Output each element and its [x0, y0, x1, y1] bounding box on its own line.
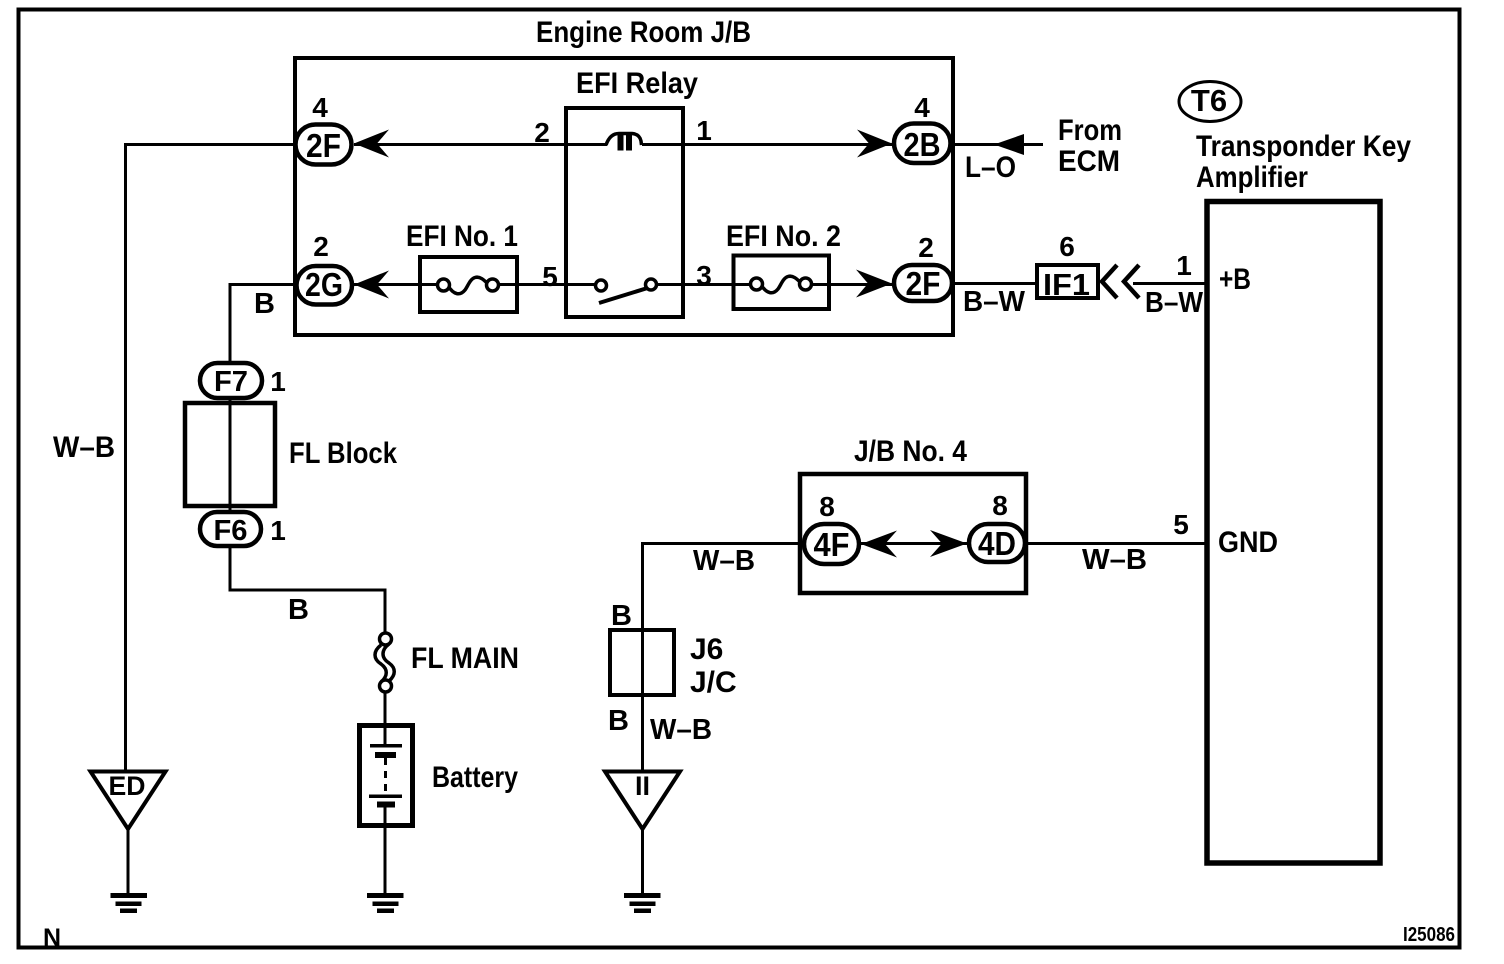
svg-text:B: B — [608, 705, 629, 737]
wire B elbow from F6 to FL MAIN — [229, 589, 387, 592]
wire 2B to From ECM stub L-O — [953, 143, 1043, 146]
wire between 4F and 4D arrows — [861, 542, 967, 545]
ground symbol battery bar 1 — [367, 893, 404, 898]
battery plate positive long top — [370, 744, 402, 748]
svg-text:1: 1 — [1176, 250, 1192, 281]
svg-text:From: From — [1058, 114, 1122, 147]
connector F7 stadium — [200, 363, 262, 398]
relay coil hump — [606, 134, 642, 146]
connector 4F stadium — [804, 524, 859, 564]
svg-text:5: 5 — [542, 261, 558, 292]
svg-text:J6: J6 — [690, 633, 723, 666]
wire W-B vertical down to ground ED — [124, 143, 127, 772]
svg-text:J/B No. 4: J/B No. 4 — [854, 435, 967, 468]
svg-text:4: 4 — [312, 92, 328, 123]
svg-text:F7: F7 — [214, 366, 248, 398]
battery plate negative short bottom — [377, 802, 395, 808]
fuse EFI No. 2 element squiggle — [761, 276, 801, 293]
battery dashed center line — [384, 758, 387, 795]
FL Block box — [185, 403, 275, 506]
relay switch contact pin 5 — [596, 280, 607, 291]
svg-text:6: 6 — [1059, 231, 1075, 262]
svg-text:1: 1 — [270, 366, 286, 397]
svg-text:W–B: W–B — [1082, 544, 1147, 576]
arrow From ECM (points left) — [994, 134, 1024, 155]
svg-text:W–B: W–B — [53, 431, 115, 464]
wire ED triangle to ground — [127, 828, 130, 894]
svg-text:FL MAIN: FL MAIN — [411, 642, 519, 675]
svg-text:T6: T6 — [1191, 83, 1227, 118]
svg-text:GND: GND — [1218, 526, 1278, 559]
ground symbol battery bar 3 — [377, 909, 394, 914]
svg-text:B–W: B–W — [1145, 287, 1204, 319]
ground symbol left bar 3 — [120, 909, 137, 914]
Transponder Key Amplifier box T6 — [1207, 202, 1380, 864]
svg-text:II: II — [635, 771, 650, 801]
svg-text:F6: F6 — [214, 515, 248, 547]
arrow into 2F (points left) — [354, 130, 389, 158]
ground symbol II bar 2 — [630, 902, 656, 907]
connector F6 stadium — [200, 512, 261, 546]
connector 2F right stadium — [894, 265, 952, 301]
relay coil hatch bar 2 — [626, 134, 632, 151]
svg-text:2B: 2B — [904, 126, 941, 163]
svg-text:N: N — [43, 924, 61, 952]
wire battery positive lead inside box — [384, 726, 387, 746]
svg-text:2F: 2F — [306, 127, 341, 164]
svg-text:L–O: L–O — [965, 151, 1016, 184]
svg-text:1: 1 — [696, 115, 712, 146]
fusible link FL MAIN wavy element line 1 — [375, 645, 386, 682]
J/B No. 4 box — [800, 474, 1026, 593]
fuse EFI No. 2 left terminal — [751, 278, 763, 290]
relay switch blade — [599, 286, 654, 303]
fusible link FL MAIN bottom terminal — [380, 680, 392, 692]
svg-text:EFI No. 1: EFI No. 1 — [406, 220, 518, 253]
svg-text:I25086: I25086 — [1403, 924, 1455, 946]
svg-text:8: 8 — [992, 490, 1008, 521]
wire fuse EFI No. 1 to relay pin 5 — [487, 283, 596, 286]
svg-text:Transponder Key: Transponder Key — [1196, 130, 1411, 163]
svg-text:5: 5 — [1173, 509, 1189, 540]
arrow into 4D (points right) — [930, 530, 967, 557]
wire battery negative to ground — [384, 806, 387, 894]
svg-text:4F: 4F — [814, 526, 850, 563]
fusible link FL MAIN top terminal — [380, 633, 392, 645]
wire relay coil right lead to pin 1 and on to 2B — [642, 143, 892, 146]
wire vertical B from corner through FL Block to F6 elbow — [229, 283, 232, 592]
fuse EFI No. 1 element squiggle — [448, 277, 488, 294]
svg-text:Amplifier: Amplifier — [1196, 161, 1308, 194]
wire II triangle to ground — [641, 828, 644, 894]
svg-text:W–B: W–B — [650, 714, 712, 746]
svg-text:2: 2 — [534, 117, 550, 148]
EFI Relay box — [566, 108, 683, 317]
wire B-W from J/B to connector IF1 — [954, 282, 1037, 285]
svg-text:3: 3 — [696, 260, 712, 291]
fuse EFI No. 2 box — [734, 256, 830, 310]
svg-text:+B: +B — [1219, 263, 1251, 296]
svg-text:2: 2 — [313, 231, 329, 262]
connector 2F left stadium — [296, 125, 352, 165]
wire W-B horizontal from corner to connector 2F — [124, 143, 296, 146]
wire FL MAIN to Battery — [384, 691, 387, 726]
svg-text:J/C: J/C — [690, 666, 737, 699]
arrow into 2F right (points right) — [856, 270, 892, 298]
wire vertical to FL MAIN top — [384, 590, 387, 634]
wire fuse EFI No. 2 to connector 2F right — [800, 283, 892, 286]
svg-text:EFI No. 2: EFI No. 2 — [726, 220, 841, 253]
svg-text:Engine Room J/B: Engine Room J/B — [536, 16, 751, 49]
svg-text:2F: 2F — [906, 265, 941, 302]
svg-text:1: 1 — [270, 515, 286, 546]
ground symbol II bar 1 — [624, 893, 661, 898]
fuse EFI No. 2 right terminal — [800, 278, 812, 290]
svg-text:Battery: Battery — [432, 761, 518, 794]
Engine Room J/B box — [295, 58, 953, 335]
ground symbol II bar 3 — [634, 909, 651, 914]
arrow into 2G (points left) — [354, 271, 389, 299]
svg-text:IF1: IF1 — [1043, 267, 1090, 302]
svg-text:B: B — [288, 594, 309, 626]
chevron arrows after IF1 pointing left — [1102, 265, 1117, 298]
ground symbol left bar 1 — [111, 893, 148, 898]
wire relay pin 3 to fuse EFI No. 2 — [656, 283, 762, 286]
ground symbol left bar 2 — [116, 902, 142, 907]
wire W-B from 4D to amplifier pin 5 GND — [1026, 542, 1207, 545]
battery plate positive long bottom — [369, 795, 402, 799]
svg-text:EFI Relay: EFI Relay — [576, 67, 698, 100]
junction connector J6 box — [610, 630, 674, 695]
svg-text:W–B: W–B — [693, 545, 755, 577]
Battery box — [360, 726, 413, 826]
ground symbol battery bar 2 — [373, 902, 399, 907]
svg-text:2G: 2G — [305, 266, 343, 303]
relay coil hatch bar 1 — [618, 134, 624, 151]
wire W-B elbow to connector 4F — [641, 542, 802, 545]
wire vertical through junction J6 to ground triangle II — [641, 542, 644, 772]
fuse EFI No. 1 right terminal — [487, 279, 499, 291]
svg-text:ECM: ECM — [1058, 145, 1120, 178]
fuse EFI No. 1 box — [420, 257, 517, 312]
battery plate negative short top — [375, 752, 396, 758]
svg-text:8: 8 — [819, 491, 835, 522]
arrow into 4F (points left) — [861, 531, 897, 558]
ground triangle II — [605, 772, 680, 830]
svg-text:B: B — [254, 288, 275, 320]
wire B-W from chevrons to amplifier pin 1 +B — [1133, 282, 1207, 285]
connector 2B stadium — [894, 124, 951, 164]
arrow into 2B (points right) — [857, 130, 892, 158]
wire node B corner to connector 2G — [230, 283, 296, 286]
connector 2G stadium — [297, 266, 353, 305]
svg-text:4D: 4D — [978, 525, 1016, 562]
svg-text:ED: ED — [109, 771, 146, 801]
wire 2F to EFI relay pin 2 (arrow drawn over) — [354, 143, 566, 146]
ground triangle ED — [91, 772, 166, 830]
fuse EFI No. 1 left terminal — [438, 279, 450, 291]
fusible link FL MAIN wavy element line 2 — [383, 644, 394, 681]
svg-text:FL Block: FL Block — [289, 437, 397, 470]
connector 4D stadium — [969, 524, 1025, 562]
svg-text:4: 4 — [914, 92, 930, 123]
wire 2G to fuse EFI No. 1 (arrow drawn over) — [354, 283, 449, 286]
svg-text:B: B — [611, 600, 632, 632]
svg-text:B–W: B–W — [963, 286, 1026, 318]
svg-text:2: 2 — [918, 232, 934, 263]
relay switch contact pin 3 — [646, 279, 657, 290]
connector T6 oval callout — [1179, 82, 1241, 122]
connector IF1 box — [1037, 265, 1098, 298]
wire relay coil left lead — [566, 143, 607, 146]
